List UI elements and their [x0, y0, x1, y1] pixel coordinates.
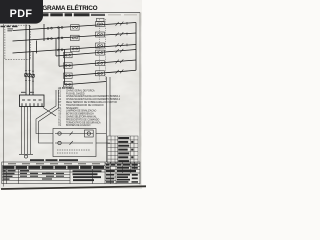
relay RT2 box	[96, 32, 105, 37]
contact S2	[116, 32, 128, 36]
corner feed wire	[43, 108, 56, 117]
line contact circles on rungs	[47, 26, 63, 51]
title block left entries	[3, 170, 51, 180]
contact S5	[116, 59, 124, 63]
short tap wire T4	[36, 41, 38, 54]
phase tap wire T2	[29, 25, 31, 95]
contactor K1 coil box	[71, 25, 80, 30]
motor M1 box	[97, 18, 105, 21]
svg-text:TRANSFORMADOR DE COMANDO: TRANSFORMADOR DE COMANDO	[66, 104, 104, 107]
link wire La	[96, 133, 106, 135]
pre-block header marks	[30, 159, 78, 161]
margin marks under badge	[1, 26, 18, 28]
sheet left border wire	[3, 24, 5, 187]
contact S1	[116, 22, 128, 26]
contact S6	[116, 70, 124, 74]
fuse F3	[31, 74, 34, 77]
rung wire R6	[65, 70, 137, 76]
fuse tick marks	[25, 70, 34, 81]
relay RT1 box	[96, 22, 105, 27]
svg-text:BOTAO DE EMERGENCIA: BOTAO DE EMERGENCIA	[66, 113, 94, 116]
rung wire R4	[56, 50, 136, 57]
contactor K2 coil box	[71, 35, 80, 40]
svg-text:CHAVE SELETORA MANUAL: CHAVE SELETORA MANUAL	[66, 116, 97, 119]
contactor K5 coil box	[64, 63, 73, 68]
svg-text:BORNES DE LIGACAO: BORNES DE LIGACAO	[66, 124, 91, 127]
drop wire at x44	[43, 24, 45, 41]
control feed elbow wire A	[36, 90, 56, 134]
svg-text:PDF: PDF	[10, 8, 33, 20]
bus wire L1	[13, 23, 137, 31]
ladder line work	[13, 23, 137, 96]
phase tap wire T1	[25, 25, 27, 96]
relay RT6 box	[96, 71, 105, 76]
phase tap wire T3	[32, 52, 34, 95]
revision entries	[118, 137, 133, 162]
svg-text:PRESSOSTATO DE COMANDO: PRESSOSTATO DE COMANDO	[66, 118, 100, 121]
riser wire Rb	[109, 77, 111, 136]
sheet right border wire	[139, 12, 141, 184]
relay RT3 box	[96, 43, 105, 48]
title block header cells	[2, 166, 104, 169]
legend list	[58, 89, 120, 127]
fuse F1	[24, 73, 27, 76]
relay RT5 box	[96, 61, 105, 66]
title block frame	[2, 162, 140, 184]
enclosure label text	[7, 28, 13, 31]
control feed elbow wire B	[39, 90, 59, 143]
motor feeder wires	[22, 107, 31, 155]
PDF badge	[0, 0, 43, 24]
svg-text:CHAVE MAGNETICA DE ACIONAMENTO: CHAVE MAGNETICA DE ACIONAMENTO BOMBA 2	[66, 98, 121, 101]
svg-text:CHAVE GERAL DE FORCA: CHAVE GERAL DE FORCA	[66, 89, 95, 92]
bus wire L3	[13, 45, 137, 54]
svg-text:LAMPADA DE SINALIZACAO: LAMPADA DE SINALIZACAO	[66, 110, 97, 113]
sheet bottom shadow	[1, 186, 146, 189]
svg-text:CHAVE MAGNETICA DE ACIONAMENTO: CHAVE MAGNETICA DE ACIONAMENTO BOMBA 1	[66, 95, 121, 98]
dashed enclosure box	[5, 25, 30, 60]
contactor K7 coil box	[64, 82, 73, 87]
motor M symbol	[19, 155, 33, 159]
rung wire R5	[59, 60, 136, 66]
contactor K6 coil box	[64, 73, 73, 78]
terminal block X1	[20, 95, 45, 107]
control sub-circuit box	[53, 129, 96, 157]
contact S4	[116, 49, 124, 53]
dashed group boundary	[99, 19, 105, 80]
terminal labels	[21, 92, 34, 93]
drop wire to R4	[55, 38, 57, 56]
fuse F2	[28, 74, 31, 77]
title block right entries	[106, 164, 138, 183]
right bus vertical wire	[135, 23, 137, 71]
svg-text:RELE TERMICO DE SOBRECARGA DO: RELE TERMICO DE SOBRECARGA DO MOTOR	[66, 101, 117, 104]
relay RT4 box	[96, 50, 105, 55]
rung wire R7	[65, 82, 107, 85]
svg-text:SINALEIRO: SINALEIRO	[66, 107, 78, 110]
sheet top rule	[36, 11, 140, 13]
drop wire to R5	[58, 28, 60, 66]
svg-text:FUSIVEL DIAZED: FUSIVEL DIAZED	[66, 92, 85, 95]
bus wire L2	[13, 33, 137, 41]
drop wire to R6	[64, 50, 66, 85]
svg-text:TERMOSTATO DE SEGURANCA: TERMOSTATO DE SEGURANCA	[66, 121, 101, 124]
subtitle label strip	[37, 13, 137, 16]
contactor K4 coil box	[64, 52, 73, 57]
title block center owner text	[42, 170, 102, 181]
link wire Lb	[96, 142, 110, 144]
paper background	[0, 0, 149, 198]
revision table	[108, 136, 139, 163]
contact S3	[116, 43, 128, 47]
contactor K3 coil box	[71, 46, 80, 51]
riser wire Ra	[105, 77, 107, 162]
column header micro text	[8, 163, 100, 164]
